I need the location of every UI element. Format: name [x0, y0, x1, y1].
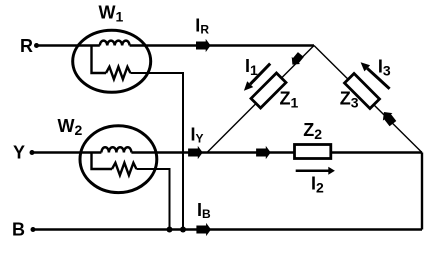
- svg-text:W1: W1: [99, 3, 124, 25]
- arrow I1: [244, 64, 270, 91]
- svg-text:IR: IR: [195, 15, 209, 36]
- wattmeter W1 case: [73, 30, 151, 92]
- resistor W1 pressure coil: [106, 67, 130, 79]
- wire B line: [33, 228, 422, 230]
- resistor W2 pressure coil: [112, 163, 136, 175]
- wire Z3 branch (apex to right vertex): [314, 46, 422, 153]
- svg-text:Z2: Z2: [303, 120, 322, 142]
- svg-text:W2: W2: [58, 116, 83, 138]
- arrow on Z3 branch near right vertex: [379, 108, 398, 127]
- wire Y line right segment to right vertex: [131, 151, 422, 153]
- wire W2 pressure coil left lead: [92, 153, 113, 170]
- svg-text:IB: IB: [197, 200, 211, 221]
- svg-text:IY: IY: [191, 124, 204, 145]
- impedance Z3 box: [344, 73, 379, 108]
- svg-text:I3: I3: [378, 57, 391, 79]
- svg-text:R: R: [20, 36, 33, 56]
- svg-text:I1: I1: [245, 56, 258, 78]
- svg-text:B: B: [12, 220, 25, 240]
- arrow IB on B line: [196, 223, 211, 236]
- wire W1 pressure coil lead to B line: [130, 73, 183, 230]
- arrow IY on Y line: [188, 146, 203, 159]
- svg-text:I2: I2: [311, 173, 324, 195]
- impedance Z1 box: [251, 73, 286, 108]
- wattmeter W2 case: [80, 126, 157, 193]
- junction W1 lead on B line: [180, 227, 186, 233]
- wire right vertical (B to right vertex): [421, 153, 423, 230]
- arrow I2: [296, 167, 335, 175]
- arrow I3: [361, 62, 390, 89]
- wattmeter W1 current coil: [100, 41, 130, 46]
- impedance Z2 box: [295, 145, 331, 159]
- arrow IR on R line: [196, 39, 211, 52]
- node Y terminal: [30, 150, 35, 155]
- arrow on Z1 branch near apex: [288, 51, 305, 68]
- wire Y line left segment: [32, 151, 101, 153]
- wire R line right segment to apex: [130, 44, 314, 46]
- wire R line left segment: [37, 44, 100, 46]
- wattmeter W2 current coil: [101, 147, 131, 152]
- svg-text:Y: Y: [13, 143, 25, 163]
- node R terminal: [34, 43, 39, 48]
- junction W2 lead on B line: [167, 227, 173, 233]
- node B terminal: [31, 227, 36, 232]
- wire Z1 branch (apex to Y node): [207, 46, 314, 153]
- wire W1 pressure coil left lead: [92, 46, 107, 74]
- arrow on Y line before Z2: [256, 146, 271, 159]
- wire W2 pressure coil lead to B line: [136, 169, 169, 230]
- svg-text:Z1: Z1: [280, 89, 299, 111]
